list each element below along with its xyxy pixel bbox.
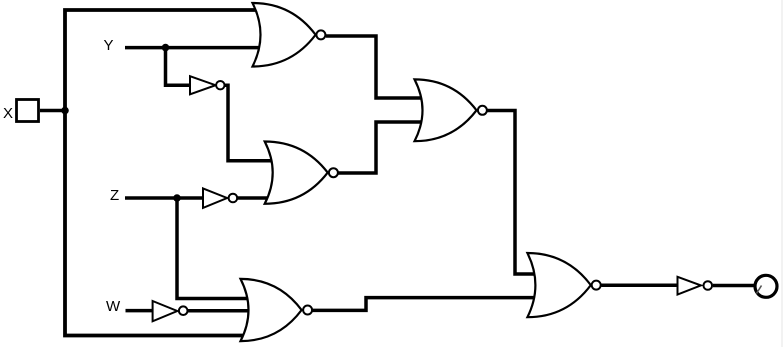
label W <box>106 298 121 315</box>
inverter N1 bubble <box>216 81 224 89</box>
inverter N4 triangle <box>678 277 701 295</box>
inverter N3 triangle <box>153 301 178 321</box>
wire G1 output to G3 top input <box>326 36 423 98</box>
svg-text:W: W <box>106 298 121 315</box>
wire Z input <box>125 196 204 200</box>
junction at X input <box>61 107 69 115</box>
wire G5 output to inverter N4 <box>602 283 679 287</box>
label Z <box>110 187 119 204</box>
NOR gate G2 body <box>265 142 328 204</box>
wire N1 output to gate G2 top input <box>225 85 273 161</box>
wire N4 output to terminal <box>713 284 754 288</box>
NOR gate G4 body (3-input) <box>241 279 302 341</box>
wire G2 output to G3 bottom input <box>339 122 424 173</box>
wire N2 output to gate G2 bottom input <box>238 196 273 200</box>
output terminal circle <box>755 275 777 297</box>
wire Y branch to inverter N1 <box>166 48 192 86</box>
NOR gate G1 output bubble <box>316 30 325 39</box>
wire W input <box>126 309 155 313</box>
label X <box>3 105 13 122</box>
NOR gate G3 body <box>415 79 477 141</box>
junction on Z wire <box>173 194 181 202</box>
svg-text:Z: Z <box>110 187 119 204</box>
NOR gate G4 output bubble <box>303 306 312 315</box>
input pin X (box) <box>17 100 39 122</box>
svg-text:X: X <box>3 105 13 122</box>
wire G3 output to G5 top input <box>488 111 536 275</box>
NOR gate G5 body <box>527 253 590 317</box>
NOR gate G5 output bubble <box>592 281 601 290</box>
inverter N4 bubble <box>704 281 713 290</box>
inverter N2 bubble <box>229 194 238 203</box>
faint screen edge line <box>781 0 783 347</box>
inverter N3 bubble <box>179 306 188 315</box>
svg-text:Y: Y <box>104 37 114 54</box>
wire main X loop (top, left vertical, bottom) <box>65 10 256 336</box>
wire Z branch to gate G4 top input <box>177 198 252 299</box>
wire Y input <box>125 46 260 50</box>
output terminal inner mark <box>757 286 762 294</box>
wire G4 output to G5 bottom input <box>313 298 537 311</box>
NOR gate G1 body <box>253 3 316 67</box>
label Y <box>104 37 114 54</box>
wire N3 output to gate G4 middle input <box>188 309 252 313</box>
NOR gate G2 output bubble <box>329 168 338 177</box>
NOR gate G3 output bubble <box>478 106 487 115</box>
inverter N2 triangle <box>203 188 227 208</box>
wire X-stub <box>40 109 67 113</box>
inverter N1 triangle <box>190 76 216 94</box>
junction on Y wire <box>162 44 170 52</box>
